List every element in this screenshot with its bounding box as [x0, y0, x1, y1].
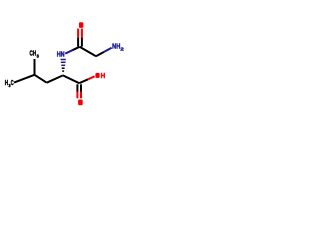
bond C4 to C2 — [47, 75, 63, 82]
bond C1 to N1 (black half + blue half) — [65, 47, 79, 54]
svg-text:CH: CH — [30, 51, 37, 58]
svg-text:H: H — [101, 73, 106, 80]
bond CH3 to C5 (vertical) — [34, 59, 36, 75]
bond H3C to C5 — [14, 75, 35, 83]
label NH2 (terminal amine) — [112, 44, 125, 52]
hashed wedge C2 to N1 (5 hashes, narrow at C2) — [61, 60, 66, 72]
bond C5 to C4 — [35, 75, 47, 83]
label H3C (left of isopropyl) — [5, 80, 14, 88]
background — [0, 0, 130, 130]
label O (amide carbonyl oxygen) — [79, 22, 84, 28]
svg-text:H: H — [5, 80, 8, 87]
label CH3 (top of isopropyl) — [30, 51, 40, 59]
label OH (carboxyl hydroxyl) — [95, 73, 105, 80]
bond C6 to N2 (black half + blue half) — [96, 48, 112, 57]
svg-text:HN: HN — [57, 52, 65, 59]
svg-text:3: 3 — [37, 54, 40, 59]
double bond C1=O1 (two vertical lines, red upper half) — [78, 29, 82, 47]
bond C1 to C6 — [80, 47, 96, 56]
svg-text:NH: NH — [112, 44, 120, 51]
bond C2 to C3 — [63, 75, 79, 83]
svg-text:C: C — [11, 80, 14, 87]
double bond C3=O2 (two vertical lines, red lower half) — [77, 84, 81, 98]
chemical structure: glycyl-L-leucine 2D depiction — [0, 0, 130, 130]
label O (carboxyl carbonyl oxygen) — [78, 100, 83, 106]
bond C3 to OH (black half + red half) — [79, 76, 94, 83]
